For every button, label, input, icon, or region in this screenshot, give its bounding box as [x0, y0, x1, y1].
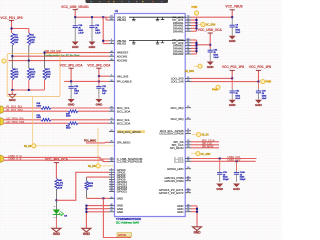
svg-text:17: 17: [187, 27, 189, 29]
directive line SE_N0 horizontal: [34, 145, 114, 147]
svg-text:26: 26: [187, 210, 189, 212]
wire R10 to ADCIN1 net: [11, 46, 13, 57]
wire to R40: [55, 164, 57, 179]
svg-text:VCC_VBUS: VCC_VBUS: [225, 5, 242, 9]
wire VBUS rail: [74, 11, 76, 17]
ground C18: [72, 42, 79, 46]
svg-text:24: 24: [111, 110, 113, 112]
svg-text:43: 43: [187, 179, 189, 181]
wire LDO_1V8 net: [191, 81, 259, 83]
capacitor C78: [219, 159, 221, 171]
svg-text:PWR: PWR: [266, 81, 272, 84]
resistor R21: [68, 122, 78, 125]
svg-text:I2C3_SCL_GPIO4: I2C3_SCL_GPIO4: [118, 130, 141, 134]
wire VCC_PD1_3P3 rail: [11, 22, 13, 33]
ground C108: [233, 184, 240, 188]
svg-text:GND: GND: [117, 196, 123, 200]
svg-text:29: 29: [187, 143, 189, 145]
svg-text:D2: D2: [110, 18, 112, 20]
svg-text:PWR: PWR: [192, 6, 198, 9]
svg-text:I2C1_SDA: I2C1_SDA: [117, 109, 131, 113]
svg-text:Configuration 1a: 3C No Test: Configuration 1a: 3C No Test: [44, 54, 79, 58]
svg-text:49: 49: [111, 207, 113, 209]
svg-text:37: 37: [187, 47, 189, 49]
wire stub to ground: [11, 90, 13, 94]
svg-text:GND: GND: [89, 45, 97, 49]
U1 internal FET path 1: [129, 16, 185, 18]
svg-text:I2C2_IRQ: I2C2_IRQ: [171, 117, 185, 121]
svg-text:I2C1_IRQ: I2C1_IRQ: [171, 106, 185, 110]
svg-text:26: 26: [111, 141, 113, 143]
svg-text:42: 42: [187, 176, 189, 178]
svg-text:GND: GND: [229, 103, 237, 107]
svg-text:22: 22: [111, 130, 113, 132]
svg-text:GND: GND: [216, 187, 224, 191]
svg-text:GND: GND: [9, 98, 17, 102]
svg-text:VCC_3P3_OCA: VCC_3P3_OCA: [45, 158, 69, 162]
svg-text:23: 23: [111, 106, 113, 108]
wire R12 to common gnd wire: [11, 80, 13, 90]
no-ERC marker SE_N0: [32, 144, 36, 148]
svg-text:GND: GND: [233, 187, 241, 191]
wire PP_HV2 DRAIN2 bus: [196, 40, 198, 54]
no-ERC marker PWR right: [261, 79, 265, 83]
svg-text:DC_SRN: DC_SRN: [206, 25, 216, 27]
capacitor C34: [209, 49, 211, 51]
svg-text:VCC_PD1_1P8: VCC_PD1_1P8: [249, 65, 271, 69]
port harness USB1_D: [0, 155, 3, 162]
svg-text:18: 18: [187, 30, 189, 32]
capacitor C9: [231, 17, 233, 25]
svg-text:45: 45: [111, 197, 113, 199]
wire VCC_USB_OCA to C34: [209, 35, 211, 49]
svg-text:14: 14: [187, 18, 189, 20]
svg-text:DC_SRN: DC_SRN: [201, 154, 211, 156]
directive line SE_N0: [32, 97, 34, 144]
svg-text:VCC_USB_VBUS1: VCC_USB_VBUS1: [61, 5, 89, 9]
svg-text:38: 38: [111, 55, 113, 57]
config group orange box: [7, 54, 60, 97]
svg-text:19: 19: [111, 190, 113, 192]
svg-text:20: 20: [111, 80, 113, 82]
capacitor C108: [236, 161, 238, 171]
op-amp U1 TPS65988 body: [115, 14, 186, 217]
wire I2C2_SDA net: [4, 122, 68, 124]
svg-text:4: 4: [111, 42, 112, 44]
svg-text:1.5nF: 1.5nF: [213, 57, 219, 59]
wire C_USB_N net: [4, 157, 109, 159]
svg-text:I2C Address 0x40: I2C Address 0x40: [116, 220, 140, 224]
svg-text:5: 5: [111, 75, 112, 77]
wire bus to C34: [197, 44, 211, 46]
svg-text:ADCIN1: ADCIN1: [117, 54, 128, 58]
wire C_USB_P net: [4, 160, 109, 161]
svg-text:21: 21: [187, 129, 189, 131]
capacitor C30: [70, 81, 72, 86]
no-ERC marker PWR mid: [216, 85, 220, 89]
svg-text:DRAIN2: DRAIN2: [173, 52, 184, 56]
ground C34: [207, 62, 214, 66]
resistor R20: [41, 118, 51, 121]
svg-text:48: 48: [111, 204, 113, 206]
capacitor C33: [258, 82, 260, 89]
wire VBUS2 drop: [102, 17, 104, 43]
svg-text:VCC_3P3_OCA: VCC_3P3_OCA: [60, 63, 84, 67]
svg-text:GND: GND: [255, 103, 263, 107]
svg-text:I2C3_SDA_GPIO6: I2C3_SDA_GPIO6: [159, 132, 183, 136]
svg-text:VCC_PD1_1P8: VCC_PD1_1P8: [222, 65, 244, 69]
svg-text:GPIO17_PP_EXT2: GPIO17_PP_EXT2: [159, 191, 184, 195]
wire I2C1_SDA net: [4, 110, 68, 112]
svg-text:SPI_MOSI: SPI_MOSI: [202, 145, 214, 148]
svg-text:38: 38: [187, 50, 189, 52]
ground C78: [216, 184, 223, 188]
svg-text:16: 16: [187, 24, 189, 26]
svg-text:DRAIN1: DRAIN1: [173, 29, 184, 33]
svg-text:36: 36: [187, 44, 189, 46]
pin I2C3_SCL_GPIO4 highlighted: [117, 130, 122, 133]
svg-text:220pF: 220pF: [223, 179, 230, 181]
svg-text:GND: GND: [207, 65, 215, 69]
svg-text:D1: D1: [110, 16, 112, 18]
svg-text:GPIO21: GPIO21: [118, 235, 127, 237]
svg-text:SE_SRN: SE_SRN: [185, 71, 195, 73]
svg-text:ADCIN2: ADCIN2: [117, 59, 128, 63]
svg-text:16: 16: [187, 118, 189, 120]
svg-text:220pF: 220pF: [240, 179, 247, 181]
svg-text:11: 11: [111, 122, 113, 124]
ground C31: [229, 100, 236, 104]
svg-text:VCC_3P3_OCA: VCC_3P3_OCA: [87, 63, 111, 67]
wire ADCIN2 net: [9, 60, 110, 62]
wire SPI_CLK net: [191, 144, 219, 146]
svg-text:46: 46: [187, 191, 189, 193]
svg-text:30: 30: [187, 146, 189, 148]
wire LED to ground: [55, 215, 57, 219]
svg-text:VBUS1: VBUS1: [117, 18, 127, 22]
svg-text:25: 25: [187, 106, 189, 108]
no-ERC marker SE_SD: [192, 134, 196, 136]
resistor R18: [41, 107, 51, 110]
wire R11 to ADCIN2 net: [28, 46, 30, 61]
port harness I2C_TP01: [0, 118, 3, 126]
net label GPIO21 tag: [117, 233, 132, 237]
ground C30: [68, 99, 75, 103]
svg-text:SE_S0: SE_S0: [201, 135, 209, 137]
svg-text:VCC_USB_OCA: VCC_USB_OCA: [198, 28, 223, 32]
wire HRESET net: [46, 52, 109, 54]
wire PP_HV1 DRAIN1 bus: [196, 17, 198, 31]
svg-text:PD1_MISO: PD1_MISO: [84, 140, 96, 143]
svg-text:39: 39: [187, 52, 189, 54]
svg-text:T8: T8: [110, 160, 112, 162]
capacitor C20: [91, 17, 93, 26]
svg-text:45: 45: [187, 188, 189, 190]
wire right GND bus: [196, 206, 198, 227]
svg-text:GND: GND: [177, 210, 183, 214]
svg-text:GPIO15_PWM: GPIO15_PWM: [164, 179, 184, 183]
wire R675 to GPIO4: [87, 176, 110, 178]
wire C_CC1 net: [191, 158, 256, 160]
svg-text:35: 35: [187, 160, 189, 162]
svg-text:VCC_PD1_3P3: VCC_PD1_3P3: [0, 16, 22, 20]
wire SPI_MOSI net: [191, 147, 219, 149]
window title bar fragment: [86, 0, 169, 3]
resistor R10: [11, 33, 14, 46]
U1 internal FET path 2: [129, 39, 185, 41]
ground left GND bus: [82, 228, 91, 232]
svg-text:PP_CABLE: PP_CABLE: [117, 79, 132, 83]
capacitor C18: [74, 17, 76, 26]
resistor R17: [44, 53, 46, 68]
svg-text:SPI_MOSI: SPI_MOSI: [170, 146, 184, 150]
svg-text:I2C2_SDA: I2C2_SDA: [117, 121, 131, 125]
svg-text:GND: GND: [229, 39, 237, 43]
svg-text:10nF: 10nF: [235, 32, 240, 34]
svg-text:29: 29: [187, 80, 189, 82]
svg-text:VBUS2: VBUS2: [117, 42, 127, 46]
svg-text:SE_N0: SE_N0: [24, 146, 32, 148]
svg-text:SPI_MISO: SPI_MISO: [117, 140, 131, 144]
svg-text:GND: GND: [193, 230, 201, 234]
directive line SE_MN horizontal: [98, 165, 114, 167]
svg-text:VIN_3V3: VIN_3V3: [117, 74, 129, 78]
svg-text:26: 26: [187, 204, 189, 206]
capacitor C32: [98, 85, 100, 88]
U1 left pins: [109, 16, 115, 18]
svg-text:10uF: 10uF: [262, 98, 267, 100]
wire R17 to common gnd wire: [44, 80, 46, 90]
wire C_CC2 net: [191, 160, 256, 162]
svg-text:GND: GND: [117, 210, 123, 214]
svg-text:27: 27: [187, 132, 189, 134]
svg-text:3: 3: [111, 39, 112, 41]
wire R675 to GPIO22 pin: [86, 190, 88, 198]
ground LED: [52, 228, 61, 232]
svg-text:1.5uF: 1.5uF: [95, 33, 101, 35]
no-ERC marker SE_SRN: [194, 65, 198, 67]
wire LDO_3V3 net: [191, 77, 232, 79]
ground C9: [229, 36, 236, 40]
wire I2C1_SCL net: [4, 107, 41, 109]
LED D8: [53, 210, 60, 215]
svg-text:GND: GND: [72, 45, 80, 49]
wire to GPIO21 net label: [103, 198, 131, 237]
svg-text:13: 13: [187, 16, 189, 18]
directive line SE_MN: [97, 128, 99, 164]
svg-text:26: 26: [187, 207, 189, 209]
svg-text:10: 10: [111, 118, 113, 120]
ground C20: [89, 42, 96, 46]
wire LED node to GPIO1: [56, 172, 109, 200]
svg-text:PWR: PWR: [212, 89, 218, 92]
wire R13 to common gnd wire: [28, 80, 30, 90]
svg-text:28: 28: [187, 140, 189, 142]
no-ERC marker SE_MN: [96, 164, 100, 168]
resistor R13: [28, 61, 30, 68]
capacitor C31: [231, 78, 233, 88]
resistor R19: [68, 110, 78, 113]
ground C33: [255, 100, 262, 104]
svg-text:39: 39: [111, 59, 113, 61]
wire SPI_SS net: [191, 141, 219, 143]
svg-text:GND: GND: [68, 102, 76, 106]
resistor R12: [11, 56, 13, 68]
svg-text:44: 44: [111, 51, 113, 53]
svg-text:C_USB_P(GPIO19): C_USB_P(GPIO19): [117, 160, 143, 164]
svg-text:USB1_CC2: USB1_CC2: [228, 159, 242, 162]
svg-text:1.5uF: 1.5uF: [78, 33, 84, 35]
resistor R40: [55, 179, 58, 190]
ground C32: [95, 99, 102, 103]
svg-text:LDO_1V8: LDO_1V8: [171, 80, 184, 84]
svg-text:21: 21: [187, 77, 189, 79]
svg-text:30: 30: [187, 167, 189, 169]
svg-text:50: 50: [111, 210, 113, 212]
wire left GND bus: [85, 206, 87, 229]
svg-text:40: 40: [187, 38, 189, 40]
resistor R675: [86, 177, 88, 181]
no-ERC marker DC_SRN top: [198, 24, 201, 26]
svg-text:SE_MN: SE_MN: [88, 166, 96, 168]
wire resistor common ground net: [12, 89, 44, 91]
svg-text:C_CC2: C_CC2: [174, 159, 184, 163]
svg-text:10uF: 10uF: [235, 98, 240, 100]
no-ERC marker DC_SRN: [191, 153, 196, 155]
svg-text:GND: GND: [96, 102, 104, 106]
no-ERC marker on ADCIN2 net: [2, 59, 6, 63]
wire VIN_3V3 net: [98, 70, 100, 77]
port harness I2C_PD1: [0, 106, 3, 114]
ground resistor array: [9, 94, 16, 98]
svg-text:GPIO21: GPIO21: [117, 190, 128, 194]
svg-text:41: 41: [187, 41, 189, 43]
svg-text:GPIO3_HPD: GPIO3_HPD: [167, 167, 184, 171]
wire ADCIN1 net: [12, 55, 109, 57]
wire to capacitor C32: [98, 76, 100, 85]
svg-text:15: 15: [187, 21, 189, 23]
resistor R11: [27, 33, 30, 46]
U1 right pins: [185, 16, 191, 18]
svg-text:34: 34: [187, 157, 189, 159]
wire VCC_VBUS net: [197, 16, 233, 18]
svg-text:GND: GND: [83, 232, 91, 236]
ground right GND bus: [193, 227, 202, 231]
svg-text:GND: GND: [53, 232, 61, 236]
wire SPI_MISO net: [86, 142, 105, 144]
wire I2C2_SCL net: [4, 119, 41, 121]
wire PP_CABLE net: [70, 70, 72, 82]
wire R40 to LED node: [55, 190, 57, 210]
